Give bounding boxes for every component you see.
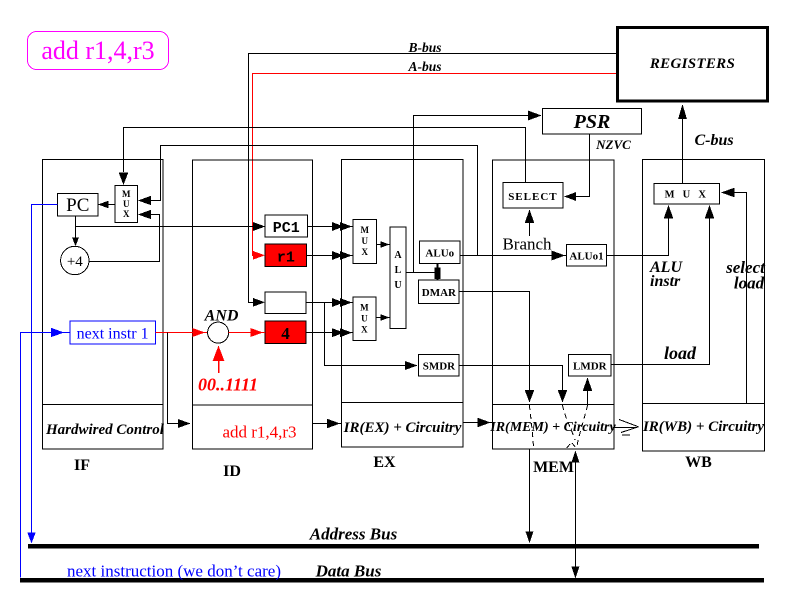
arrow Branch into SELECT (529, 215, 531, 236)
adder +4 (61, 246, 89, 274)
Address Bus (28, 544, 759, 548)
wire SMDR to MEM strip (459, 366, 562, 393)
mux M1 (IF) (115, 186, 138, 223)
red mask arrow into AND (218, 352, 220, 373)
ID divider (193, 404, 313, 406)
REGISTERS U10 (618, 28, 768, 102)
arrow ID strip to EX strip (312, 423, 341, 425)
wire NZVC from PSR to SELECT (572, 134, 590, 197)
B-bus wire (249, 54, 617, 303)
register B operand (blank) (265, 292, 306, 313)
svg-text:M U X: M U X (665, 190, 709, 201)
svg-text:NZVC: NZVC (595, 137, 631, 152)
register ALUo (420, 241, 460, 264)
wire branch target into MUX right upper (150, 146, 478, 256)
svg-text:M: M (360, 225, 369, 235)
svg-text:X: X (123, 209, 130, 219)
arrow into DMAR top (437, 264, 439, 280)
svg-text:WB: WB (685, 454, 712, 471)
svg-text:IR(EX) + Circuitry: IR(EX) + Circuitry (343, 420, 462, 436)
svg-text:next instr 1: next instr 1 (77, 326, 149, 343)
MEM divider (493, 404, 615, 406)
svg-text:EX: EX (373, 454, 396, 471)
svg-text:+4: +4 (67, 254, 83, 270)
svg-text:U: U (394, 280, 401, 291)
dashed path DMAR through circuitry (529, 405, 533, 449)
svg-text:SMDR: SMDR (423, 361, 456, 373)
svg-text:Hardwired Control: Hardwired Control (45, 422, 165, 438)
svg-text:ALUo1: ALUo1 (569, 251, 603, 263)
wire PC down to +4 (75, 216, 77, 244)
arrow LMDR load from strip (587, 390, 589, 405)
arrow MEM strip to WB strip (thin) (613, 427, 637, 429)
svg-text:IR(WB) + Circuitry: IR(WB) + Circuitry (642, 419, 764, 435)
svg-text:LMDR: LMDR (573, 361, 608, 373)
svg-text:ID: ID (223, 463, 241, 480)
mux M3 (EX lower) (353, 297, 376, 340)
svg-text:PSR: PSR (573, 111, 611, 133)
svg-text:00..1111: 00..1111 (198, 375, 258, 395)
dashed path SMDR through circuitry (562, 405, 576, 449)
stage box MEM (493, 160, 615, 449)
svg-text:U: U (361, 314, 368, 324)
Data Bus (20, 578, 764, 582)
stage box EX (342, 160, 463, 447)
mux M2 (EX upper) (353, 219, 377, 263)
red wire AND to 4 (229, 332, 265, 334)
svg-text:MEM: MEM (533, 459, 574, 476)
WB divider (643, 403, 765, 405)
svg-text:SELECT: SELECT (508, 191, 557, 203)
svg-text:4: 4 (281, 324, 290, 343)
wire ALU flags to PSR (414, 116, 531, 273)
wire B operand to M3 (306, 302, 353, 304)
EX divider (342, 402, 463, 404)
svg-text:M: M (122, 189, 131, 199)
svg-text:C-bus: C-bus (694, 132, 733, 149)
dashed path LMDR through circuitry (577, 405, 588, 449)
svg-text:Data Bus: Data Bus (315, 562, 382, 581)
svg-text:DMAR: DMAR (422, 287, 457, 299)
blue wire PC to Address Bus (32, 205, 58, 541)
wire select load into WB mux (728, 193, 747, 404)
svg-text:U: U (361, 236, 368, 246)
wire MEM to Address Bus (529, 449, 531, 536)
stage box WB (643, 160, 765, 451)
svg-text:IR(MEM) + Circuitry: IR(MEM) + Circuitry (489, 420, 616, 435)
wire PC1 to M2 (307, 226, 353, 228)
register DMAR (419, 280, 459, 303)
svg-text:X: X (361, 325, 368, 335)
register LMDR (569, 355, 611, 377)
wire MUX to PC (100, 204, 115, 206)
svg-text:L: L (395, 265, 402, 276)
svg-text:Address Bus: Address Bus (309, 525, 398, 544)
svg-text:M: M (360, 303, 369, 313)
svg-text:A-bus: A-bus (407, 59, 441, 74)
svg-text:instr: instr (650, 273, 681, 290)
svg-text:X: X (361, 247, 368, 257)
register PC1 (265, 215, 307, 237)
wire M3 to ALU (376, 317, 390, 319)
IF divider (43, 403, 164, 405)
mux M4 (WB) (654, 183, 720, 204)
wire 4 to M3 (306, 332, 353, 334)
svg-text:r1: r1 (277, 250, 295, 267)
stage box ID (193, 160, 313, 449)
register SELECT (503, 183, 563, 209)
svg-text:PC: PC (66, 195, 89, 216)
register 4 (red) (265, 321, 306, 344)
register ALUo1 (566, 245, 606, 266)
wire ALUo1 to WB mux (607, 212, 669, 256)
svg-text:U: U (123, 199, 130, 209)
op ALU (390, 227, 406, 328)
arrow EX strip to MEM strip (463, 422, 493, 424)
gate AND circle (208, 322, 229, 343)
svg-text:B-bus: B-bus (407, 40, 441, 55)
blue wire Data Bus to next instr (21, 333, 71, 578)
svg-text:IF: IF (74, 457, 90, 474)
wire ALU out junction (406, 264, 438, 273)
register PC (58, 193, 98, 216)
wire r1 to M2 (307, 255, 353, 257)
register SMDR (419, 355, 459, 377)
svg-text:add r1,4,r3: add r1,4,r3 (41, 36, 154, 65)
A-bus wire (red) (253, 74, 617, 256)
svg-text:ALUo: ALUo (425, 248, 454, 260)
wire MEM to Data Bus (double arrow) (575, 456, 577, 572)
wire LMDR to WB mux (611, 212, 710, 365)
wire ALUo to ALUo1 (460, 255, 566, 257)
PSR box (543, 109, 642, 134)
svg-text:AND: AND (204, 308, 239, 325)
wire +4 loop into MUX right lower (89, 215, 160, 262)
wire select (SELECT to MUX top) (124, 128, 526, 183)
register "next instr 1" (70, 321, 155, 344)
svg-text:load: load (734, 274, 765, 293)
svg-text:A: A (394, 250, 402, 261)
svg-text:REGISTERS: REGISTERS (649, 56, 735, 72)
svg-text:load: load (664, 343, 697, 363)
wire PC to PC1 (76, 226, 256, 228)
svg-text:add r1,4,r3: add r1,4,r3 (222, 423, 296, 442)
svg-text:Branch: Branch (502, 235, 552, 254)
wire WB mux to REGISTERS (C-bus) (682, 118, 684, 183)
stage box IF (43, 160, 164, 450)
wire M2 to ALU (377, 244, 391, 246)
register r1 (red) (265, 244, 306, 267)
instruction bubble "add r1,4,r3" (28, 32, 169, 70)
wire B operand to SMDR (325, 303, 411, 366)
wire DMAR to MEM strip (459, 292, 529, 393)
red wire next instr to AND (155, 332, 207, 334)
svg-text:PC1: PC1 (273, 220, 300, 237)
svg-text:next instruction (we don’t car: next instruction (we don’t care) (67, 562, 281, 581)
wire instr down into ID strip (168, 333, 181, 424)
